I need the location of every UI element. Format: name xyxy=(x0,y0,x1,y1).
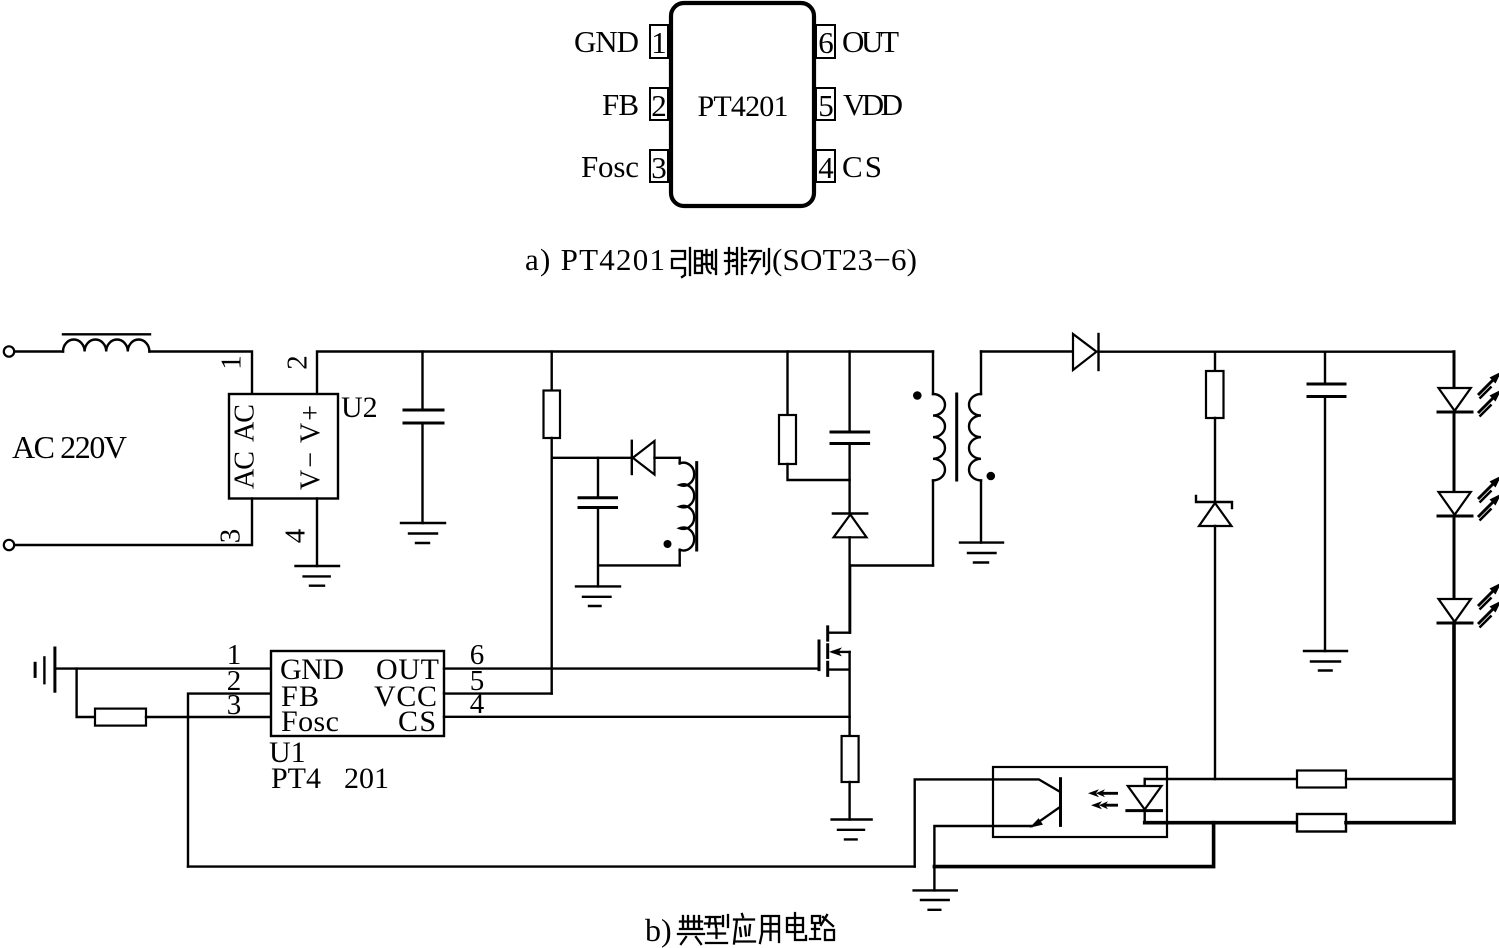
wire R4 to LED string bottom xyxy=(1346,778,1454,780)
mosfet Q1 body arrow xyxy=(833,651,850,653)
ground under bridge xyxy=(296,566,340,586)
wire R2 to snubber node xyxy=(788,464,850,480)
svg-text:V−: V− xyxy=(295,452,326,490)
mosfet Q1 source connection xyxy=(828,652,850,736)
wire bus to R3 xyxy=(1214,352,1216,371)
diode D4 output rectifier (points right) xyxy=(1073,334,1097,370)
opto LED anode wire to R4 xyxy=(1145,778,1297,780)
opto LED lead bottom xyxy=(1143,811,1145,823)
ground under opto emitter xyxy=(914,890,957,909)
opto collector wire and drop to FB xyxy=(915,779,1060,866)
wire inductor to bridge pin1 corner xyxy=(149,352,252,395)
pin 6 box xyxy=(816,25,835,58)
ground (rotated) at U1 GND xyxy=(53,648,56,691)
LED string wire bottom xyxy=(1452,623,1456,823)
wire U1 pin1 GND xyxy=(55,667,271,669)
svg-text:201: 201 xyxy=(344,762,389,795)
LED string wire top xyxy=(1453,352,1456,388)
ground under secondary xyxy=(960,543,1003,563)
wire bridge pin2 up and top bus to transformer primary xyxy=(317,352,933,395)
opto LED cathode wire to R5 xyxy=(1145,821,1297,825)
caption b chinese 路 xyxy=(810,915,834,940)
ground under C1 xyxy=(401,523,445,543)
wire bus to R1 xyxy=(551,352,553,391)
ic U-A body PT4201 (pinout diagram) xyxy=(671,3,814,206)
opto LED triangle xyxy=(1128,786,1162,810)
wire R3 to zener D5 xyxy=(1214,418,1216,502)
aux core line xyxy=(695,463,698,550)
terminal input bottom xyxy=(4,540,14,550)
resistor R3 xyxy=(1206,371,1224,418)
capacitor C4 plates xyxy=(579,498,617,508)
wire U1 pin4 CS to source node xyxy=(444,716,850,718)
wire R5 to LED string bottom xyxy=(1346,821,1454,825)
LED string wire 2-3 xyxy=(1453,516,1456,599)
ground under R7 xyxy=(832,820,872,840)
diode D3 (points up) xyxy=(833,512,867,514)
wire bus to C3 xyxy=(1324,352,1326,384)
wire bridge pin3 to lower terminal xyxy=(15,499,253,546)
inductor L1 arcs xyxy=(63,340,149,352)
caption a chinese 脚 xyxy=(695,250,716,274)
wire R7 to ground xyxy=(848,782,850,820)
svg-text:CS: CS xyxy=(398,705,436,738)
opto light arrows xyxy=(1088,789,1118,809)
caption b chinese 典 xyxy=(678,916,704,944)
transformer core line xyxy=(955,394,958,480)
optocoupler U3 box xyxy=(993,767,1167,837)
wire D2 to aux winding xyxy=(655,457,680,459)
wire secondary top to D4 xyxy=(981,350,1073,352)
opto phototransistor bar xyxy=(1059,779,1062,826)
wire GND node down to Fosc resistor xyxy=(77,669,95,717)
capacitor C2 plates (snubber) xyxy=(831,432,869,444)
inductor L1 core bar xyxy=(63,333,150,335)
caption b chinese 型 xyxy=(705,915,728,943)
mosfet Q1 drain connection xyxy=(828,566,850,633)
wire bus to C1 xyxy=(421,352,423,411)
resistor R7 sense xyxy=(842,736,859,782)
wire bridge pin4 down xyxy=(316,499,318,567)
aux winding W1 xyxy=(679,458,681,566)
wire terminal to inductor xyxy=(15,350,64,352)
resistor R1 (startup) xyxy=(544,391,561,439)
pin 1 box xyxy=(650,25,668,58)
primary polarity dot xyxy=(913,391,922,400)
LED2 emission arrows xyxy=(1478,476,1499,503)
svg-text:2: 2 xyxy=(227,665,242,697)
pin 5 box xyxy=(816,88,835,120)
ground under C4 xyxy=(576,586,620,606)
LED string wire 1-2 xyxy=(1453,412,1456,492)
wire U1 pin6 OUT to mosfet gate xyxy=(444,667,818,669)
mosfet Q1 channel segments xyxy=(826,627,829,676)
pin 3 box xyxy=(650,150,668,182)
terminal input top xyxy=(4,346,14,356)
wire R6 to U1 pin3 xyxy=(146,716,271,718)
svg-text:AC 220V: AC 220V xyxy=(12,429,127,465)
wire C2 down through node to D3 xyxy=(848,444,850,514)
opto emitter wire to ground xyxy=(934,826,1032,890)
LED2 xyxy=(1439,492,1471,515)
svg-text:PT4: PT4 xyxy=(271,762,321,795)
wire bus to C2 xyxy=(848,352,850,433)
wire D4 to LED string top xyxy=(1099,351,1455,353)
pin 2 box xyxy=(650,88,668,120)
resistor R4 xyxy=(1297,771,1346,788)
resistor R5 xyxy=(1297,814,1346,832)
svg-text:b): b) xyxy=(645,912,672,948)
secondary polarity dot xyxy=(987,472,996,481)
resistor R2 xyxy=(779,415,796,464)
resistor R6 Fosc xyxy=(95,709,146,726)
aux winding polarity dot xyxy=(664,540,672,548)
opto LED lead xyxy=(1143,779,1145,787)
transformer primary winding xyxy=(932,352,934,566)
capacitor C3 output plates xyxy=(1308,384,1345,397)
svg-text:U2: U2 xyxy=(341,391,378,424)
svg-text:3: 3 xyxy=(215,529,247,544)
LED3 xyxy=(1439,599,1471,622)
pin 4 box xyxy=(816,150,835,182)
U1 box xyxy=(271,651,444,736)
FB bottom wire xyxy=(188,865,915,867)
caption b chinese 电 xyxy=(787,913,806,940)
zener diode D5 (points up, bent bar) xyxy=(1196,496,1232,508)
caption a chinese 列 xyxy=(749,249,769,274)
wire C1 to ground xyxy=(421,423,423,523)
wire D5 down to opto LED anode line xyxy=(1214,526,1216,779)
caption b chinese 用 xyxy=(760,916,779,943)
wire C3 to ground xyxy=(1324,397,1326,652)
wire C4 to ground with branch to winding bottom xyxy=(598,508,680,587)
mosfet Q1 gate bar xyxy=(818,641,821,670)
wire aux cap C4 top xyxy=(597,458,599,498)
ground under C3 xyxy=(1304,651,1347,671)
opto LED cathode bar xyxy=(1127,809,1162,812)
svg-text:Fosc: Fosc xyxy=(281,705,339,738)
caption a chinese 排 xyxy=(725,248,746,274)
wire D3 to drain node and to primary bottom xyxy=(850,537,933,632)
svg-text:AC: AC xyxy=(229,404,260,442)
capacitor C1 plates xyxy=(404,410,443,423)
wire R1 down to VCC node (long vertical) xyxy=(551,438,553,694)
svg-text:4: 4 xyxy=(280,528,312,543)
svg-text:2: 2 xyxy=(282,355,314,370)
svg-text:1: 1 xyxy=(216,355,248,370)
wire U1 pin2 FB and long FB vertical xyxy=(188,694,271,867)
wire VCC node branch to aux diode xyxy=(552,457,632,459)
caption b chinese 应 xyxy=(734,914,755,944)
LED1 emission arrows xyxy=(1478,372,1499,399)
svg-text:AC: AC xyxy=(229,451,260,489)
svg-text:V+: V+ xyxy=(295,405,326,443)
diode D2 aux rectifier (points left) xyxy=(631,441,633,474)
transformer secondary winding xyxy=(980,352,982,543)
opto emitter with arrow xyxy=(1035,807,1061,825)
LED3 emission arrows xyxy=(1478,583,1499,610)
thick ground return wire from opto LED cathode xyxy=(934,823,1213,867)
caption a chinese 引 xyxy=(672,248,690,277)
LED1 xyxy=(1439,388,1471,411)
svg-text:4: 4 xyxy=(470,688,485,720)
wire U1 pin5 VCC xyxy=(444,692,552,694)
bridge rectifier U2 box xyxy=(229,394,338,499)
wire bus to R2 xyxy=(786,352,788,416)
